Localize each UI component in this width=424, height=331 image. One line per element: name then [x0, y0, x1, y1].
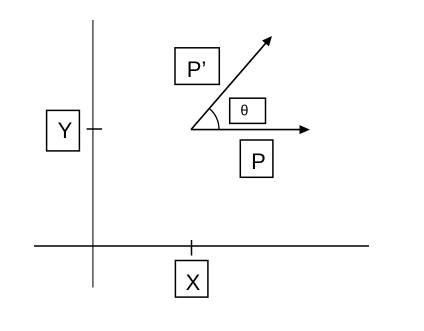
svg-text:P’: P’ — [187, 57, 207, 82]
svg-text:P: P — [251, 149, 266, 174]
svg-text:Y: Y — [58, 118, 73, 143]
svg-text:X: X — [186, 270, 201, 295]
svg-text:θ: θ — [240, 104, 248, 120]
